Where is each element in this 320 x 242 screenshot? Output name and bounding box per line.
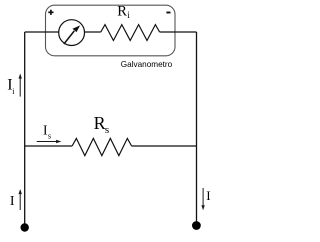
plus terminal label <box>48 10 53 15</box>
middle wire left segment <box>25 145 72 147</box>
middle wire right segment <box>132 145 197 147</box>
svg-text:R: R <box>117 3 127 19</box>
galvanometer enclosure box <box>46 5 176 56</box>
svg-text:s: s <box>48 132 51 141</box>
terminal node B (bottom-right dot) <box>192 221 201 230</box>
minus terminal label <box>166 12 170 14</box>
current arrow I bottom-left (up) <box>19 189 22 210</box>
wire galvanometer to Ri <box>85 31 101 33</box>
resistor Rs <box>72 138 132 155</box>
wire Ri to right branch <box>160 31 197 33</box>
current arrow Ii (up) <box>19 74 22 97</box>
svg-text:I: I <box>206 188 210 203</box>
galvanometer meter G <box>59 20 85 46</box>
left vertical wire <box>24 32 26 227</box>
galvanometer needle <box>64 26 79 44</box>
svg-text:R: R <box>94 113 106 133</box>
resistor Ri <box>101 25 160 41</box>
current arrow Is (right) <box>37 140 62 143</box>
svg-text:Galvanometro: Galvanometro <box>121 60 173 69</box>
current arrow I bottom-right (down) <box>201 188 204 210</box>
wire from left branch into galvanometer <box>25 31 59 33</box>
svg-text:s: s <box>105 124 109 136</box>
svg-text:I: I <box>10 194 15 209</box>
terminal node A (bottom-left dot) <box>21 223 29 231</box>
right vertical wire <box>196 32 198 225</box>
